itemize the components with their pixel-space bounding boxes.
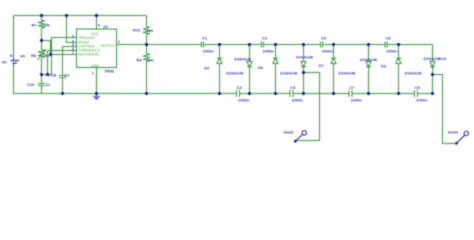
svg-text:D1N4148: D1N4148: [360, 57, 378, 62]
svg-text:20k: 20k: [147, 58, 154, 63]
diode D8: [366, 45, 371, 94]
svg-text:D9: D9: [381, 64, 387, 69]
capacitor C29: [38, 75, 45, 94]
node Vout2 marker: [294, 131, 307, 143]
svg-text:Vout3: Vout3: [448, 130, 458, 134]
svg-text:R7: R7: [32, 22, 38, 27]
wire threshold: [48, 51, 77, 75]
svg-text:2: 2: [72, 34, 74, 38]
svg-text:C7: C7: [349, 85, 355, 90]
svg-text:7: 7: [72, 51, 74, 55]
svg-text:20k: 20k: [43, 22, 50, 27]
svg-text:TRIGGER: TRIGGER: [78, 36, 94, 40]
wire ground rail segment C9-end: [418, 93, 433, 95]
wire cap node run: [42, 74, 52, 76]
svg-text:555D: 555D: [105, 69, 115, 74]
svg-text:C6: C6: [321, 36, 327, 41]
battery V9: [10, 55, 19, 67]
capacitor C28: [59, 76, 66, 94]
capacitor C5: [290, 90, 293, 97]
svg-text:D6: D6: [258, 65, 264, 70]
svg-text:D1N4148: D1N4148: [280, 71, 298, 76]
resistor R7: [39, 16, 45, 41]
resistor R8 (variable): [38, 41, 46, 75]
555 pin 8 riser: [96, 16, 98, 30]
node Vout3 marker: [455, 131, 468, 145]
svg-text:DISCHARGE: DISCHARGE: [78, 53, 99, 57]
svg-text:1000n: 1000n: [351, 98, 363, 103]
wire ground rail segment C5-C7: [293, 93, 349, 95]
svg-text:1000n: 1000n: [322, 49, 334, 54]
svg-text:C4: C4: [262, 36, 268, 41]
diode D6: [273, 45, 278, 94]
svg-text:R8: R8: [31, 53, 37, 58]
svg-text:3: 3: [118, 40, 120, 44]
svg-text:1n: 1n: [45, 82, 50, 87]
svg-text:Vout2: Vout2: [283, 131, 293, 135]
diode D3: [247, 45, 252, 94]
svg-text:D2: D2: [204, 65, 210, 70]
wire reset riser: [67, 16, 77, 43]
555 internal pin names: [78, 32, 115, 68]
capacitor C2: [237, 90, 240, 97]
svg-text:D7: D7: [319, 63, 325, 68]
resistor R10: [144, 16, 150, 45]
wire discharge jog: [42, 41, 77, 55]
ground symbol: [93, 94, 100, 101]
svg-text:D1N4148: D1N4148: [405, 71, 423, 76]
svg-text:1000n: 1000n: [386, 49, 398, 54]
wire left supply column: [13, 16, 15, 57]
capacitor C1: [202, 42, 204, 48]
svg-text:9V: 9V: [2, 60, 7, 65]
wire trigger: [52, 38, 77, 75]
svg-text:X2: X2: [103, 24, 109, 29]
svg-text:D10: D10: [439, 56, 447, 61]
svg-text:1000n: 1000n: [203, 49, 215, 54]
svg-text:R9: R9: [136, 58, 142, 63]
diode D7: [331, 45, 336, 94]
svg-text:OUTPUT: OUTPUT: [100, 44, 115, 48]
svg-text:1000n: 1000n: [416, 98, 428, 103]
capacitor C8: [385, 42, 387, 48]
svg-text:C9: C9: [415, 85, 421, 90]
svg-text:1: 1: [92, 72, 94, 76]
wire ground rail segment C2-C5: [240, 93, 291, 95]
svg-text:D1N4148: D1N4148: [226, 71, 244, 76]
capacitor C9: [415, 90, 418, 97]
wire control: [63, 47, 77, 76]
svg-text:20k: 20k: [43, 53, 50, 58]
svg-text:V9: V9: [20, 54, 26, 59]
svg-text:8: 8: [98, 24, 100, 28]
diode D5: [301, 45, 306, 94]
svg-text:R10: R10: [133, 28, 141, 33]
capacitor C6: [321, 42, 323, 48]
svg-text:1000n: 1000n: [263, 49, 275, 54]
svg-text:C28: C28: [49, 73, 57, 78]
diode D10: [430, 45, 435, 94]
wire Vout3 tap: [433, 75, 457, 144]
svg-text:20k: 20k: [147, 28, 154, 33]
svg-text:GND: GND: [91, 64, 99, 68]
svg-text:D1N4148: D1N4148: [339, 71, 357, 76]
capacitor C4: [262, 42, 264, 48]
svg-text:1n: 1n: [65, 73, 70, 78]
wire battery minus to ground rail corner: [14, 67, 237, 94]
svg-text:1000n: 1000n: [292, 98, 304, 103]
svg-text:C2: C2: [237, 85, 243, 90]
capacitor C7: [349, 90, 352, 97]
wire output rail segments: [147, 44, 433, 46]
svg-text:D1N4148: D1N4148: [296, 55, 314, 60]
op-amp U1: 555 timer X2 box: [77, 29, 117, 68]
555 pin 1 gnd drop: [96, 68, 98, 94]
wire Vout2 tap: [296, 73, 320, 141]
resistor R9: [144, 45, 150, 94]
wire ground rail segment C7-C9: [352, 93, 415, 95]
svg-text:C1: C1: [202, 36, 208, 41]
svg-text:C5: C5: [290, 85, 296, 90]
svg-text:D1N4148: D1N4148: [234, 56, 252, 61]
svg-text:C8: C8: [386, 36, 392, 41]
diode D2: [217, 45, 222, 94]
wire VCC top rail: [14, 15, 147, 17]
svg-text:C29: C29: [27, 82, 35, 87]
svg-text:1000n: 1000n: [238, 98, 250, 103]
diode D9: [396, 45, 401, 94]
555 output pin 3 wire: [117, 44, 147, 46]
